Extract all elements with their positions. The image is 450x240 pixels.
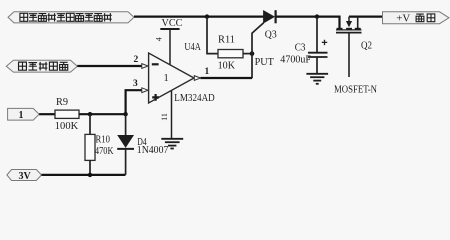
junction: D4/pin3 node [123, 112, 127, 116]
port: +V 输出 (+V output) [383, 12, 450, 25]
svg-text:PUT: PUT [255, 57, 275, 68]
resistor R10 [85, 114, 114, 175]
svg-text:1: 1 [164, 73, 169, 84]
ground: C3 [306, 74, 328, 84]
port: 3V [7, 170, 42, 183]
wire: op-amp output to gate node [201, 77, 253, 79]
svg-text:Q2: Q2 [361, 41, 372, 52]
MOSFET Q2 [334, 17, 377, 96]
svg-text:3: 3 [133, 79, 138, 89]
wire: top rail from input port to Q3 anode [134, 16, 264, 18]
svg-text:3V: 3V [19, 171, 32, 182]
wire: drop from top rail to R11 left lead [207, 17, 218, 54]
svg-text:11: 11 [160, 113, 169, 121]
pin 2 arrow [142, 64, 148, 69]
power VCC [160, 18, 182, 65]
svg-text:U4A: U4A [184, 42, 201, 53]
resistor R9 [55, 97, 79, 132]
svg-text:C3: C3 [295, 43, 306, 54]
pin 11 stem [171, 91, 173, 139]
junction: 3V/R10 [88, 173, 92, 177]
svg-text:1: 1 [19, 110, 24, 121]
junction: R9/R10 node [88, 112, 92, 116]
svg-text:4700uF: 4700uF [280, 54, 311, 65]
wire: node to pin 3 [126, 90, 142, 114]
svg-text:1: 1 [205, 67, 210, 77]
junction: top rail to R11 drop [205, 14, 209, 18]
wire: Q2 source to +V port [349, 16, 383, 18]
svg-text:1N4007: 1N4007 [137, 145, 169, 156]
svg-text:R9: R9 [56, 97, 68, 108]
svg-text:10K: 10K [218, 60, 236, 71]
port: 同步三角波 (sync triangle wave) [6, 60, 77, 72]
port: 全波整流功率信号输入 (full-wave rectified power signal input) [8, 12, 134, 23]
wire: port 1 to R9 [39, 113, 55, 115]
wire: top rail from Q3 cathode to Q2 drain corner [277, 17, 340, 29]
junction: top rail to C3 [315, 14, 319, 18]
svg-text:2: 2 [134, 55, 139, 65]
port: 1 [8, 108, 39, 121]
svg-text:100K: 100K [55, 121, 79, 132]
svg-text:+V: +V [396, 13, 410, 24]
capacitor C3 (polarized) [280, 17, 327, 74]
svg-text:MOSFET-N: MOSFET-N [334, 85, 377, 96]
pin 3 arrow [142, 88, 148, 93]
wire: 3V rail [42, 174, 126, 176]
junction: R11 / PUT gate / op-amp output node [250, 51, 255, 56]
svg-text:Q3: Q3 [265, 30, 277, 41]
ground: op-amp pin 11 [161, 139, 183, 149]
wire: sync triangle wave to pin 2 [77, 65, 142, 67]
pin 1 output arrow [194, 76, 200, 81]
resistor R11 [218, 35, 252, 72]
svg-text:4: 4 [155, 37, 164, 41]
op-amp U4A LM324AD [149, 42, 215, 104]
svg-text:LM324AD: LM324AD [174, 93, 215, 104]
svg-text:VCC: VCC [162, 18, 183, 29]
PUT Q3 [252, 10, 277, 78]
svg-text:470K: 470K [95, 146, 114, 157]
svg-text:R11: R11 [218, 35, 235, 46]
wire: R9 to node / pin3 riser [79, 113, 126, 115]
svg-text:R10: R10 [96, 134, 111, 145]
diode D4 1N4007 [117, 114, 168, 175]
